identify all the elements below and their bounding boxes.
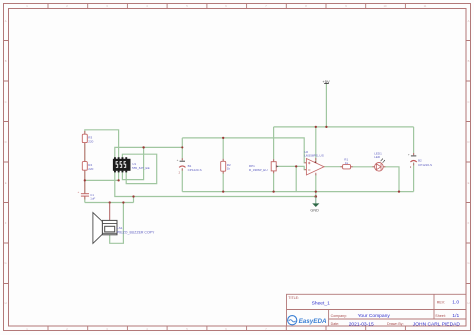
junction buzzer net rail B [132, 195, 134, 197]
svg-text:6: 6 [225, 4, 227, 8]
wire B2 top [413, 127, 415, 155]
svg-text:Date:: Date: [331, 322, 340, 326]
border ticks right [466, 41, 471, 284]
svg-text:+: + [177, 158, 179, 162]
svg-text:H: H [5, 301, 7, 305]
EasyEDA logo [288, 316, 327, 326]
wire rail R4 bottom [85, 179, 119, 181]
resistor R1 [343, 157, 351, 169]
svg-text:EasyEDA: EasyEDA [299, 318, 327, 325]
svg-text:LM358PS_US: LM358PS_US [304, 154, 324, 158]
resistor R2 [221, 161, 231, 171]
pin stubs LED1 [372, 166, 385, 168]
svg-text:1/1: 1/1 [452, 313, 459, 319]
svg-text:CP1220-S: CP1220-S [188, 168, 202, 172]
svg-text:555_8JT_EE: 555_8JT_EE [132, 166, 150, 170]
wire RP1 wiper to -in [278, 166, 307, 169]
wire 555 pin1 loop to B1 column [115, 147, 183, 157]
capacitor C1 [78, 190, 96, 201]
wire wiper node down to rail A [295, 166, 297, 191]
junction LED cathode rail A [398, 190, 400, 192]
svg-text:4: 4 [146, 4, 148, 8]
svg-text:11: 11 [424, 4, 427, 8]
junction buzzer pin2 node [122, 201, 124, 203]
junction RP1 bottom node [272, 190, 274, 192]
potentiometer RP1 [249, 162, 279, 172]
svg-text:+: + [78, 190, 80, 194]
svg-text:2: 2 [66, 4, 68, 8]
svg-text:1: 1 [26, 4, 28, 8]
wire R3 top to 555 pin2 [85, 130, 119, 157]
junction GND node [315, 195, 318, 198]
svg-text:Your Company: Your Company [358, 313, 391, 319]
wire 555 pin1 bottom to GND rail B [115, 172, 316, 196]
battery B2 CP1220-S [408, 153, 432, 169]
svg-text:E: E [5, 181, 7, 185]
junction R4 bottom node [84, 179, 86, 181]
svg-text:REV:: REV: [437, 300, 445, 304]
resistor R3 [82, 134, 93, 143]
svg-text:9: 9 [345, 4, 347, 8]
svg-text:2021-03-15: 2021-03-15 [349, 321, 374, 327]
junction buzzer pin1 node [109, 201, 111, 203]
svg-text:C: C [5, 100, 7, 104]
wire B1 column [181, 138, 183, 192]
wire RP1 top [273, 127, 275, 162]
svg-text:1.0: 1.0 [452, 299, 459, 305]
border ticks bottom [48, 327, 405, 331]
junction R2 bottom node [222, 190, 224, 192]
border ticks left [3, 41, 8, 284]
svg-text:D: D [468, 140, 470, 144]
wire RP1 bottom [273, 171, 275, 192]
svg-text:CP1220-S: CP1220-S [418, 163, 432, 167]
wire C1 bottom rail [85, 197, 134, 203]
svg-text:R_3386P_EU: R_3386P_EU [249, 168, 268, 172]
svg-text:B: B [468, 59, 470, 63]
junction +5V rail drop [325, 126, 327, 128]
pin stubs op-amp U2 [304, 158, 315, 175]
svg-text:C: C [468, 100, 470, 104]
svg-text:1k: 1k [345, 161, 349, 165]
junction R2 top node [222, 137, 224, 139]
svg-text:2: 2 [410, 166, 412, 169]
wire opamp V- to GND [315, 174, 317, 197]
wire loop 555 pin3 bottom up to node [122, 147, 143, 179]
svg-text:1uF: 1uF [90, 197, 95, 201]
svg-text:H: H [468, 301, 470, 305]
svg-text:E: E [468, 181, 470, 185]
svg-text:+: + [408, 153, 410, 157]
svg-text:2: 2 [179, 171, 181, 174]
pin stubs B1 [181, 158, 183, 170]
junction wiper node [295, 165, 297, 167]
svg-text:B: B [5, 59, 7, 63]
svg-text:GND: GND [310, 208, 319, 212]
LED1 [374, 152, 385, 172]
svg-text:PIEZO_BUZZER COPY: PIEZO_BUZZER COPY [117, 230, 155, 234]
buzzer LS1 [93, 203, 155, 244]
+5V net flag [322, 79, 330, 84]
wire +5V vertical [325, 83, 327, 127]
svg-text:1k: 1k [227, 167, 231, 171]
wire top rail 138 [182, 138, 306, 163]
svg-text:Company:: Company: [331, 314, 347, 318]
wire opamp V+ [315, 127, 317, 162]
junction node A (555 feedback) [142, 146, 144, 148]
battery B1 CP1220-S [177, 158, 202, 174]
IC U1 555 [113, 157, 150, 172]
svg-text:Drawn By:: Drawn By: [387, 322, 404, 326]
op-amp U2 [304, 150, 324, 175]
svg-text:D: D [5, 140, 7, 144]
svg-text:10: 10 [384, 4, 387, 8]
svg-text:8: 8 [305, 4, 307, 8]
svg-text:G: G [467, 261, 469, 265]
svg-text:3: 3 [106, 4, 108, 8]
svg-text:A: A [5, 19, 7, 23]
svg-text:5: 5 [186, 4, 188, 8]
svg-text:F: F [5, 221, 7, 225]
svg-text:A: A [468, 19, 470, 23]
pin stubs B2 [413, 153, 415, 165]
svg-text:220: 220 [88, 139, 93, 143]
wire big loop 555 pin3 top to pin4 bottom [122, 154, 156, 183]
pin stubs R2 [222, 159, 224, 174]
pin stubs R3 R4 C1 [84, 131, 86, 200]
title block values [312, 299, 461, 327]
svg-text:G: G [5, 261, 7, 265]
wire buzzer pin2 loop [110, 203, 124, 244]
junction +5V rail op-amp V+ [315, 126, 317, 128]
pin stubs R1 [340, 166, 352, 168]
wire B2 bottom [413, 162, 415, 191]
junction B1 top node [181, 146, 183, 148]
junction 555 pin2 node [117, 179, 119, 181]
title block labels [288, 296, 445, 326]
svg-text:LED: LED [374, 155, 381, 159]
wire LED to rail A [383, 167, 399, 192]
wire rail A bottom [182, 191, 413, 193]
wire +5V rail 127 [274, 126, 414, 128]
wire R2 column [222, 138, 224, 192]
svg-text:Sheet:: Sheet: [435, 314, 445, 318]
svg-text:TITLE:: TITLE: [288, 296, 299, 300]
svg-text:JOHN CARL PIEDAD: JOHN CARL PIEDAD [413, 321, 461, 327]
GND symbol [310, 197, 319, 213]
wire 555 pin2 bottom stub [118, 172, 120, 180]
title block frame [287, 294, 467, 326]
svg-text:Sheet_1: Sheet_1 [312, 301, 331, 307]
wire R1 to LED [351, 166, 375, 168]
border ticks top [48, 3, 405, 8]
svg-text:220: 220 [88, 167, 93, 171]
pin stubs RP1 [273, 159, 275, 173]
wire opamp out to R1 [324, 166, 343, 168]
junction op-amp V- rail A [315, 190, 317, 192]
svg-text:F: F [468, 221, 470, 225]
wire left column through R3 R4 C1 [84, 143, 86, 203]
resistor R4 [82, 162, 93, 171]
svg-text:7: 7 [265, 4, 267, 8]
